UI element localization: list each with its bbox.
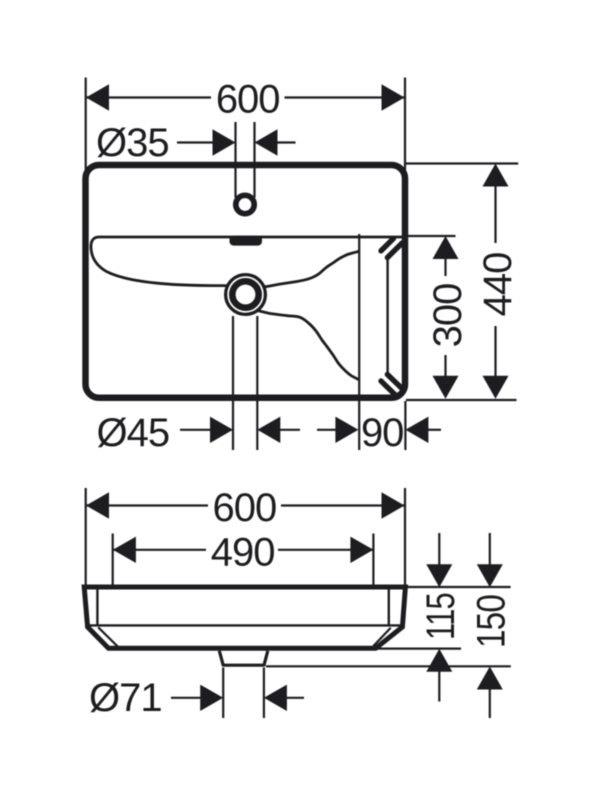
dim Ø45: extension line right <box>256 316 258 450</box>
dim 600 front: extension line left <box>85 488 87 586</box>
bowl bottom curve passing behind drain <box>224 284 266 288</box>
dim Ø35: leader line with right arrowhead <box>177 141 214 143</box>
dim 600 front: dimension line <box>86 504 208 506</box>
dim 600 front: right arrowhead <box>382 492 405 518</box>
bowl upper-right curve <box>266 251 359 286</box>
dim 600 top: left arrowhead <box>86 84 109 110</box>
front view inner chamfer left <box>98 627 118 647</box>
dim 600 front: extension line right <box>404 488 406 586</box>
channel bottom break marks <box>381 381 395 395</box>
dim 90: left arrowhead with tail <box>405 417 428 443</box>
svg-text:440: 440 <box>476 253 520 317</box>
svg-text:115: 115 <box>419 593 463 640</box>
dim 440: top extension line <box>406 162 518 164</box>
channel top break marks <box>381 238 394 250</box>
dim 440: bottom extension line <box>406 399 517 401</box>
svg-text:Ø35: Ø35 <box>96 121 169 165</box>
dim 115: lower arrow (up) <box>426 649 452 672</box>
dim Ø71: extension line right <box>263 668 265 719</box>
basin outer outline (top view) <box>86 165 406 398</box>
dim 150: lower arrow (up) <box>477 667 503 690</box>
dim 490: right arrowhead <box>350 537 373 563</box>
dim 150: upper arrow (down) <box>489 533 491 566</box>
dim 600 top: dimension line <box>86 96 211 98</box>
overflow slot <box>230 236 263 246</box>
svg-text:600: 600 <box>213 486 277 530</box>
dim 150: bottom extension line <box>266 665 511 667</box>
dim 490: left arrowhead <box>113 537 136 563</box>
dim 600 top: extension line right <box>404 78 406 174</box>
dim Ø71: leader with right arrowhead <box>171 697 201 699</box>
dim Ø45: left arrowhead with tail <box>257 417 280 443</box>
front view inner chamfer right <box>373 628 391 647</box>
drain inner ring <box>232 281 258 307</box>
dim 90: right-pointing arrowhead with tail <box>317 429 336 431</box>
svg-text:90: 90 <box>361 411 404 455</box>
dim Ø45: leader with right arrowhead <box>180 429 211 431</box>
dim 300: top extension line <box>406 235 456 237</box>
faucet hole ring <box>236 195 254 213</box>
dim 490: extension line right <box>372 534 374 648</box>
front view inner wall line right <box>388 590 390 626</box>
svg-text:Ø71: Ø71 <box>89 676 162 720</box>
bowl lower-right (trumpet) curve <box>259 311 359 380</box>
front view outline <box>84 587 405 648</box>
dim 490: dimension line <box>113 549 206 551</box>
dim Ø35: extension line left <box>234 122 236 198</box>
dim 300: dimension line with arrows <box>433 236 459 259</box>
dim 90: extension line at basin right edge <box>404 401 406 450</box>
svg-text:150: 150 <box>469 595 513 648</box>
dim Ø35: left arrowhead with tail <box>255 129 278 155</box>
dim Ø45: extension line left <box>232 316 234 450</box>
dim 490: extension line left <box>112 534 114 648</box>
svg-text:300: 300 <box>426 284 470 348</box>
drain outer circle <box>226 275 266 315</box>
dim 600 top: right arrowhead <box>382 84 405 110</box>
svg-text:Ø45: Ø45 <box>97 411 170 455</box>
dim Ø71: left arrowhead with tail <box>264 685 287 711</box>
dim 115: upper arrow (down) <box>438 533 440 566</box>
dim Ø71: extension line left <box>222 668 224 719</box>
front view inner wall line left <box>96 590 98 626</box>
dim 600 top: extension line left <box>85 78 87 174</box>
front view inner bottom line <box>89 624 402 626</box>
right channel inner line <box>386 260 388 373</box>
svg-text:600: 600 <box>216 78 280 122</box>
dim 90: extension line at channel <box>358 234 360 450</box>
dim 115: bottom extension line <box>375 647 462 649</box>
dim 440: dimension line with arrows <box>483 164 509 187</box>
dim Ø35: extension line right <box>253 122 255 198</box>
bowl back edge and left bowl curve <box>91 237 402 286</box>
drain stub <box>219 651 267 665</box>
dim 115/150: top extension line <box>407 586 511 588</box>
dim 600 front: left arrowhead <box>86 492 109 518</box>
svg-text:490: 490 <box>211 530 275 574</box>
